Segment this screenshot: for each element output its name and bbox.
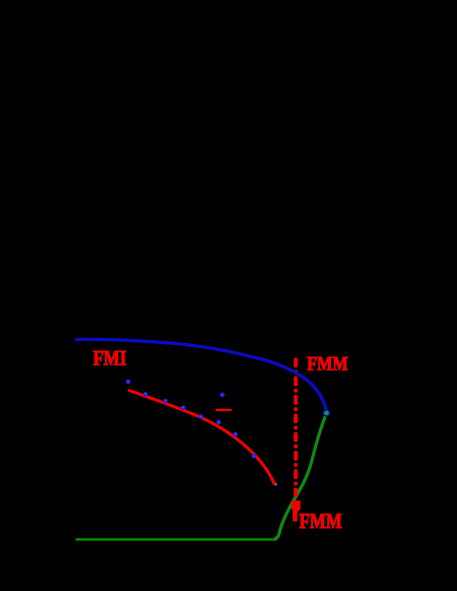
svg-text:FMM: FMM <box>307 353 348 375</box>
svg-text:FMM: FMM <box>299 509 342 533</box>
blue curve <box>75 339 327 412</box>
red curve <box>128 390 275 485</box>
legend blue dot <box>220 392 225 397</box>
blue data dot 6 <box>216 420 221 425</box>
blue data dot 1 <box>126 379 131 384</box>
blue data dot 4 <box>181 405 186 410</box>
red arrow head <box>291 501 300 515</box>
tiny blue dot at red curve tip <box>274 483 277 486</box>
red dash-dot vertical line <box>294 360 298 495</box>
blue data dot 3 <box>163 399 168 404</box>
junction marker green center <box>324 411 329 416</box>
blue data dot 2 <box>143 392 148 397</box>
blue data dot 7 <box>233 432 238 437</box>
svg-text:FMI: FMI <box>93 348 126 370</box>
legend red line <box>216 409 232 411</box>
red arrow tail <box>293 511 297 522</box>
blue data dot 5 <box>199 414 204 419</box>
green baseline <box>76 538 278 540</box>
green curve <box>274 413 327 539</box>
blue data dot 8 <box>252 454 257 459</box>
junction marker blue ring <box>323 409 330 416</box>
